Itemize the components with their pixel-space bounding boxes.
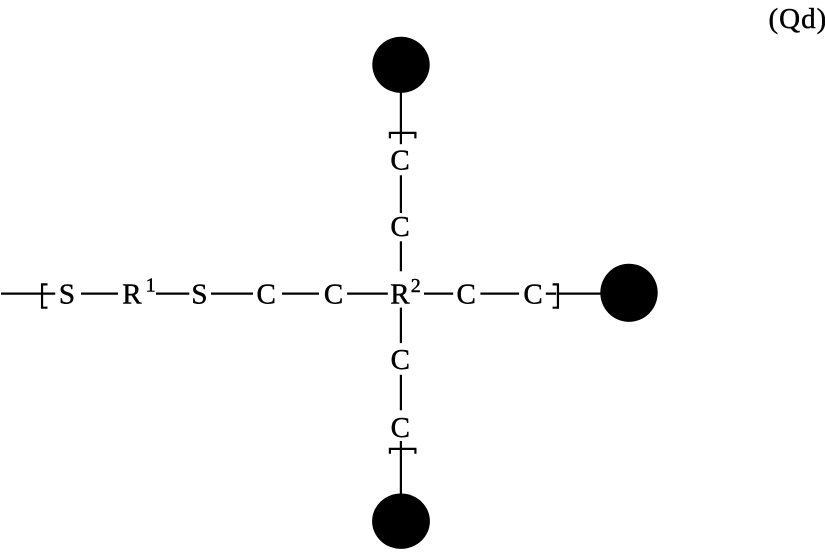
node ball top (filled circle) — [372, 37, 429, 93]
bracket ] right repeat-unit bracket — [553, 284, 558, 307]
svg-text:C: C — [390, 144, 409, 176]
svg-text:S: S — [191, 278, 207, 310]
svg-text:R: R — [122, 278, 142, 310]
bond right bracket to right ball — [558, 292, 602, 294]
wire: left end bond through bracket to S — [1, 292, 55, 294]
bond S2-C1 — [211, 292, 253, 294]
bond R2 down to C bottom-1 — [400, 308, 402, 344]
bond Ctop1-Ctop2 — [400, 175, 402, 213]
svg-text:C: C — [390, 211, 409, 243]
node ball bottom (filled circle) — [372, 494, 430, 549]
bond R1-S2 — [156, 292, 189, 294]
svg-text:1: 1 — [146, 275, 156, 297]
svg-text:(Qd): (Qd) — [769, 3, 825, 35]
bracket top repeat-unit bracket (rotated) — [390, 133, 416, 139]
bond Cbot1-Cbot2 — [400, 375, 402, 411]
bracket [ left repeat-unit bracket — [42, 284, 47, 307]
svg-text:C: C — [257, 278, 276, 310]
svg-text:C: C — [457, 278, 476, 310]
svg-text:2: 2 — [411, 275, 421, 297]
bond C1-C2 — [282, 292, 319, 294]
bond S1-R1 — [81, 292, 118, 294]
svg-text:C: C — [391, 412, 410, 444]
bond Cbot2 through bottom bracket to bottom ball — [400, 441, 402, 495]
svg-text:R: R — [390, 278, 410, 310]
svg-text:C: C — [391, 344, 410, 376]
svg-text:C: C — [324, 278, 343, 310]
bond Ctop2-R2 — [400, 241, 402, 271]
node ball right (filled circle) — [600, 264, 657, 322]
svg-text:C: C — [523, 278, 542, 310]
bond R2-C3 — [424, 292, 453, 294]
bond C4 to right bracket — [546, 292, 556, 294]
bond C3-C4 — [480, 292, 519, 294]
svg-text:S: S — [59, 278, 75, 310]
bond top ball down to top bracket — [400, 90, 402, 144]
bond C2-R2 — [347, 292, 388, 294]
bracket bottom repeat-unit bracket (rotated) — [390, 449, 416, 454]
